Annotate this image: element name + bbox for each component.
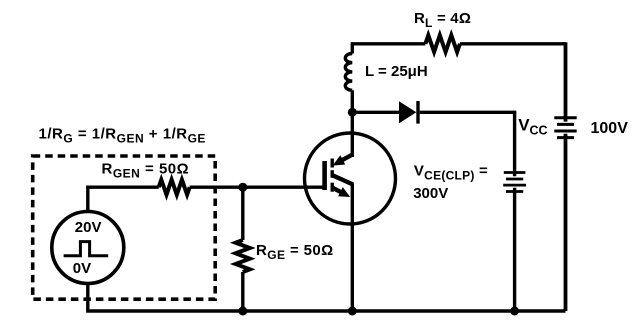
wire RGE to bottom rail bbox=[241, 272, 244, 311]
battery 100V bbox=[554, 118, 576, 138]
inductor L bbox=[345, 44, 352, 113]
label VCE(CLP) = 300V bbox=[413, 162, 488, 202]
pulse source VGEN bbox=[52, 212, 124, 284]
resistor RGEN bbox=[159, 180, 190, 195]
wire clamp branch top bbox=[513, 111, 516, 177]
channel bar segment bottom bbox=[331, 183, 334, 192]
node clamp cap bottom bbox=[510, 307, 519, 316]
diode D1 bbox=[399, 101, 420, 124]
node RGE bottom bbox=[238, 307, 247, 316]
label formula 1/RG = 1/RGEN + 1/RGE bbox=[39, 125, 206, 145]
svg-text:0V: 0V bbox=[73, 260, 91, 277]
pulse waveform bbox=[64, 242, 109, 256]
wire junction down to RGE bbox=[241, 187, 244, 240]
svg-text:RL = 4Ω: RL = 4Ω bbox=[414, 10, 471, 30]
svg-text:300V: 300V bbox=[413, 185, 448, 202]
channel bar segment top bbox=[331, 159, 334, 168]
wire collector stub bbox=[351, 112, 354, 157]
channel bar segment middle bbox=[331, 170, 334, 178]
wire diode to clamp branch bbox=[420, 111, 517, 114]
svg-text:100V: 100V bbox=[591, 120, 629, 137]
node emitter bottom bbox=[348, 307, 357, 316]
wire right rail bottom bbox=[564, 134, 568, 311]
node gate junction bbox=[238, 183, 247, 192]
resistor RGE bbox=[236, 240, 250, 272]
wire source top to RGEN bbox=[88, 187, 159, 213]
svg-text:20V: 20V bbox=[75, 219, 102, 236]
wire clamp branch bottom bbox=[513, 188, 516, 311]
resistor RL bbox=[425, 35, 460, 52]
wire top rail right bbox=[460, 42, 566, 45]
gate bar bbox=[322, 161, 327, 190]
middle diagonal bbox=[333, 176, 353, 185]
wire RGEN to gate bbox=[190, 185, 326, 188]
collector diagonal with arrow into bar bbox=[342, 155, 353, 161]
svg-text:L = 25μH: L = 25μH bbox=[365, 63, 428, 80]
transistor Q1 (IGBT) bbox=[305, 133, 396, 224]
node collector bbox=[348, 108, 357, 117]
wire bottom rail bbox=[86, 309, 565, 312]
wire collector node to diode bbox=[352, 111, 399, 114]
wire emitter to bottom rail bbox=[351, 184, 354, 312]
wire right rail top bbox=[564, 42, 568, 121]
emitter diagonal with arrow out bbox=[332, 188, 341, 192]
wire source bottom to rail bbox=[86, 284, 89, 312]
capacitor VCE clamp bbox=[503, 173, 526, 192]
dashed gate-drive box bbox=[33, 156, 216, 299]
wire top rail left bbox=[351, 42, 426, 45]
